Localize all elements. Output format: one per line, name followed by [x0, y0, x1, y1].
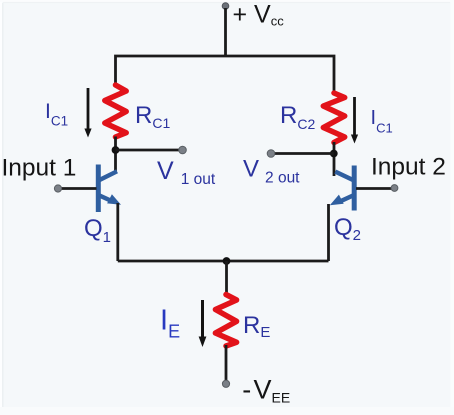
power terminal +Vcc dot: [222, 3, 229, 10]
node collector Q1: [112, 146, 120, 154]
wire emitter Q2 down: [327, 204, 330, 261]
resistor RC2: [323, 93, 344, 143]
wire bottom rail: [118, 260, 329, 263]
terminal Input1 dot: [54, 185, 61, 192]
transistor Q2: [330, 166, 354, 211]
terminal Input2 dot: [391, 185, 398, 192]
terminal V2out dot: [267, 150, 275, 158]
wire to V2out: [272, 152, 334, 155]
wire collector Q1: [114, 137, 117, 172]
wire base Q2: [356, 187, 394, 190]
wire base Q1: [58, 187, 97, 190]
transistor Q1: [98, 165, 121, 213]
wire to V1out: [116, 149, 182, 152]
wire to RE: [225, 261, 228, 294]
node emitter junction: [223, 257, 231, 265]
node collector Q2: [330, 150, 338, 158]
wire collector Q2: [333, 142, 336, 176]
resistor RE: [215, 295, 236, 347]
current arrow IC1 left: [84, 88, 91, 138]
resistor RC1: [105, 85, 126, 137]
wire RE to VEE: [225, 345, 228, 380]
terminal V1out dot: [179, 146, 187, 154]
current arrow IC1 right: [351, 97, 358, 144]
svg-text:Input 2: Input 2: [371, 154, 446, 181]
wire top rail: [116, 56, 335, 93]
current arrow IE: [199, 300, 207, 347]
terminal -VEE dot: [222, 380, 229, 387]
svg-text:Input 1: Input 1: [2, 155, 77, 182]
wire Vcc vertical: [224, 8, 227, 56]
wire emitter Q1 down: [116, 203, 119, 261]
